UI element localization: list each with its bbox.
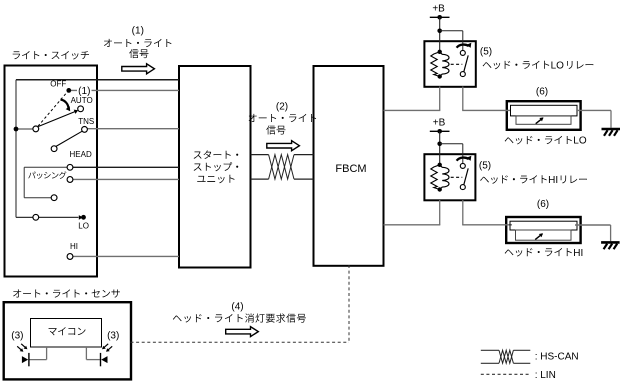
svg-text:: LIN: : LIN	[535, 370, 556, 381]
svg-text:+B: +B	[433, 117, 446, 128]
svg-text:(1): (1)	[132, 26, 144, 37]
svg-text:(4): (4)	[231, 302, 243, 313]
svg-text:(2): (2)	[276, 102, 288, 113]
svg-text:(3): (3)	[107, 331, 119, 342]
svg-text:+B: +B	[432, 3, 445, 14]
svg-text:(5): (5)	[480, 47, 492, 58]
svg-text:(6): (6)	[537, 199, 549, 210]
svg-text:HI: HI	[70, 242, 78, 251]
svg-text:LO: LO	[78, 221, 89, 230]
svg-text:HI: HI	[573, 248, 583, 259]
svg-text:(1): (1)	[78, 86, 90, 97]
svg-text:TNS: TNS	[78, 117, 94, 126]
svg-text:FBCM: FBCM	[335, 163, 366, 175]
svg-text:HI: HI	[548, 175, 558, 186]
svg-text:AUTO: AUTO	[71, 96, 93, 105]
svg-text:OFF: OFF	[50, 80, 66, 89]
svg-text:LO: LO	[573, 136, 587, 147]
svg-text:(3): (3)	[11, 331, 23, 342]
svg-text:(5): (5)	[479, 161, 491, 172]
svg-text:(6): (6)	[536, 87, 548, 98]
svg-text:LO: LO	[551, 61, 565, 72]
svg-text:: HS-CAN: : HS-CAN	[535, 352, 579, 363]
svg-text:HEAD: HEAD	[70, 150, 92, 159]
